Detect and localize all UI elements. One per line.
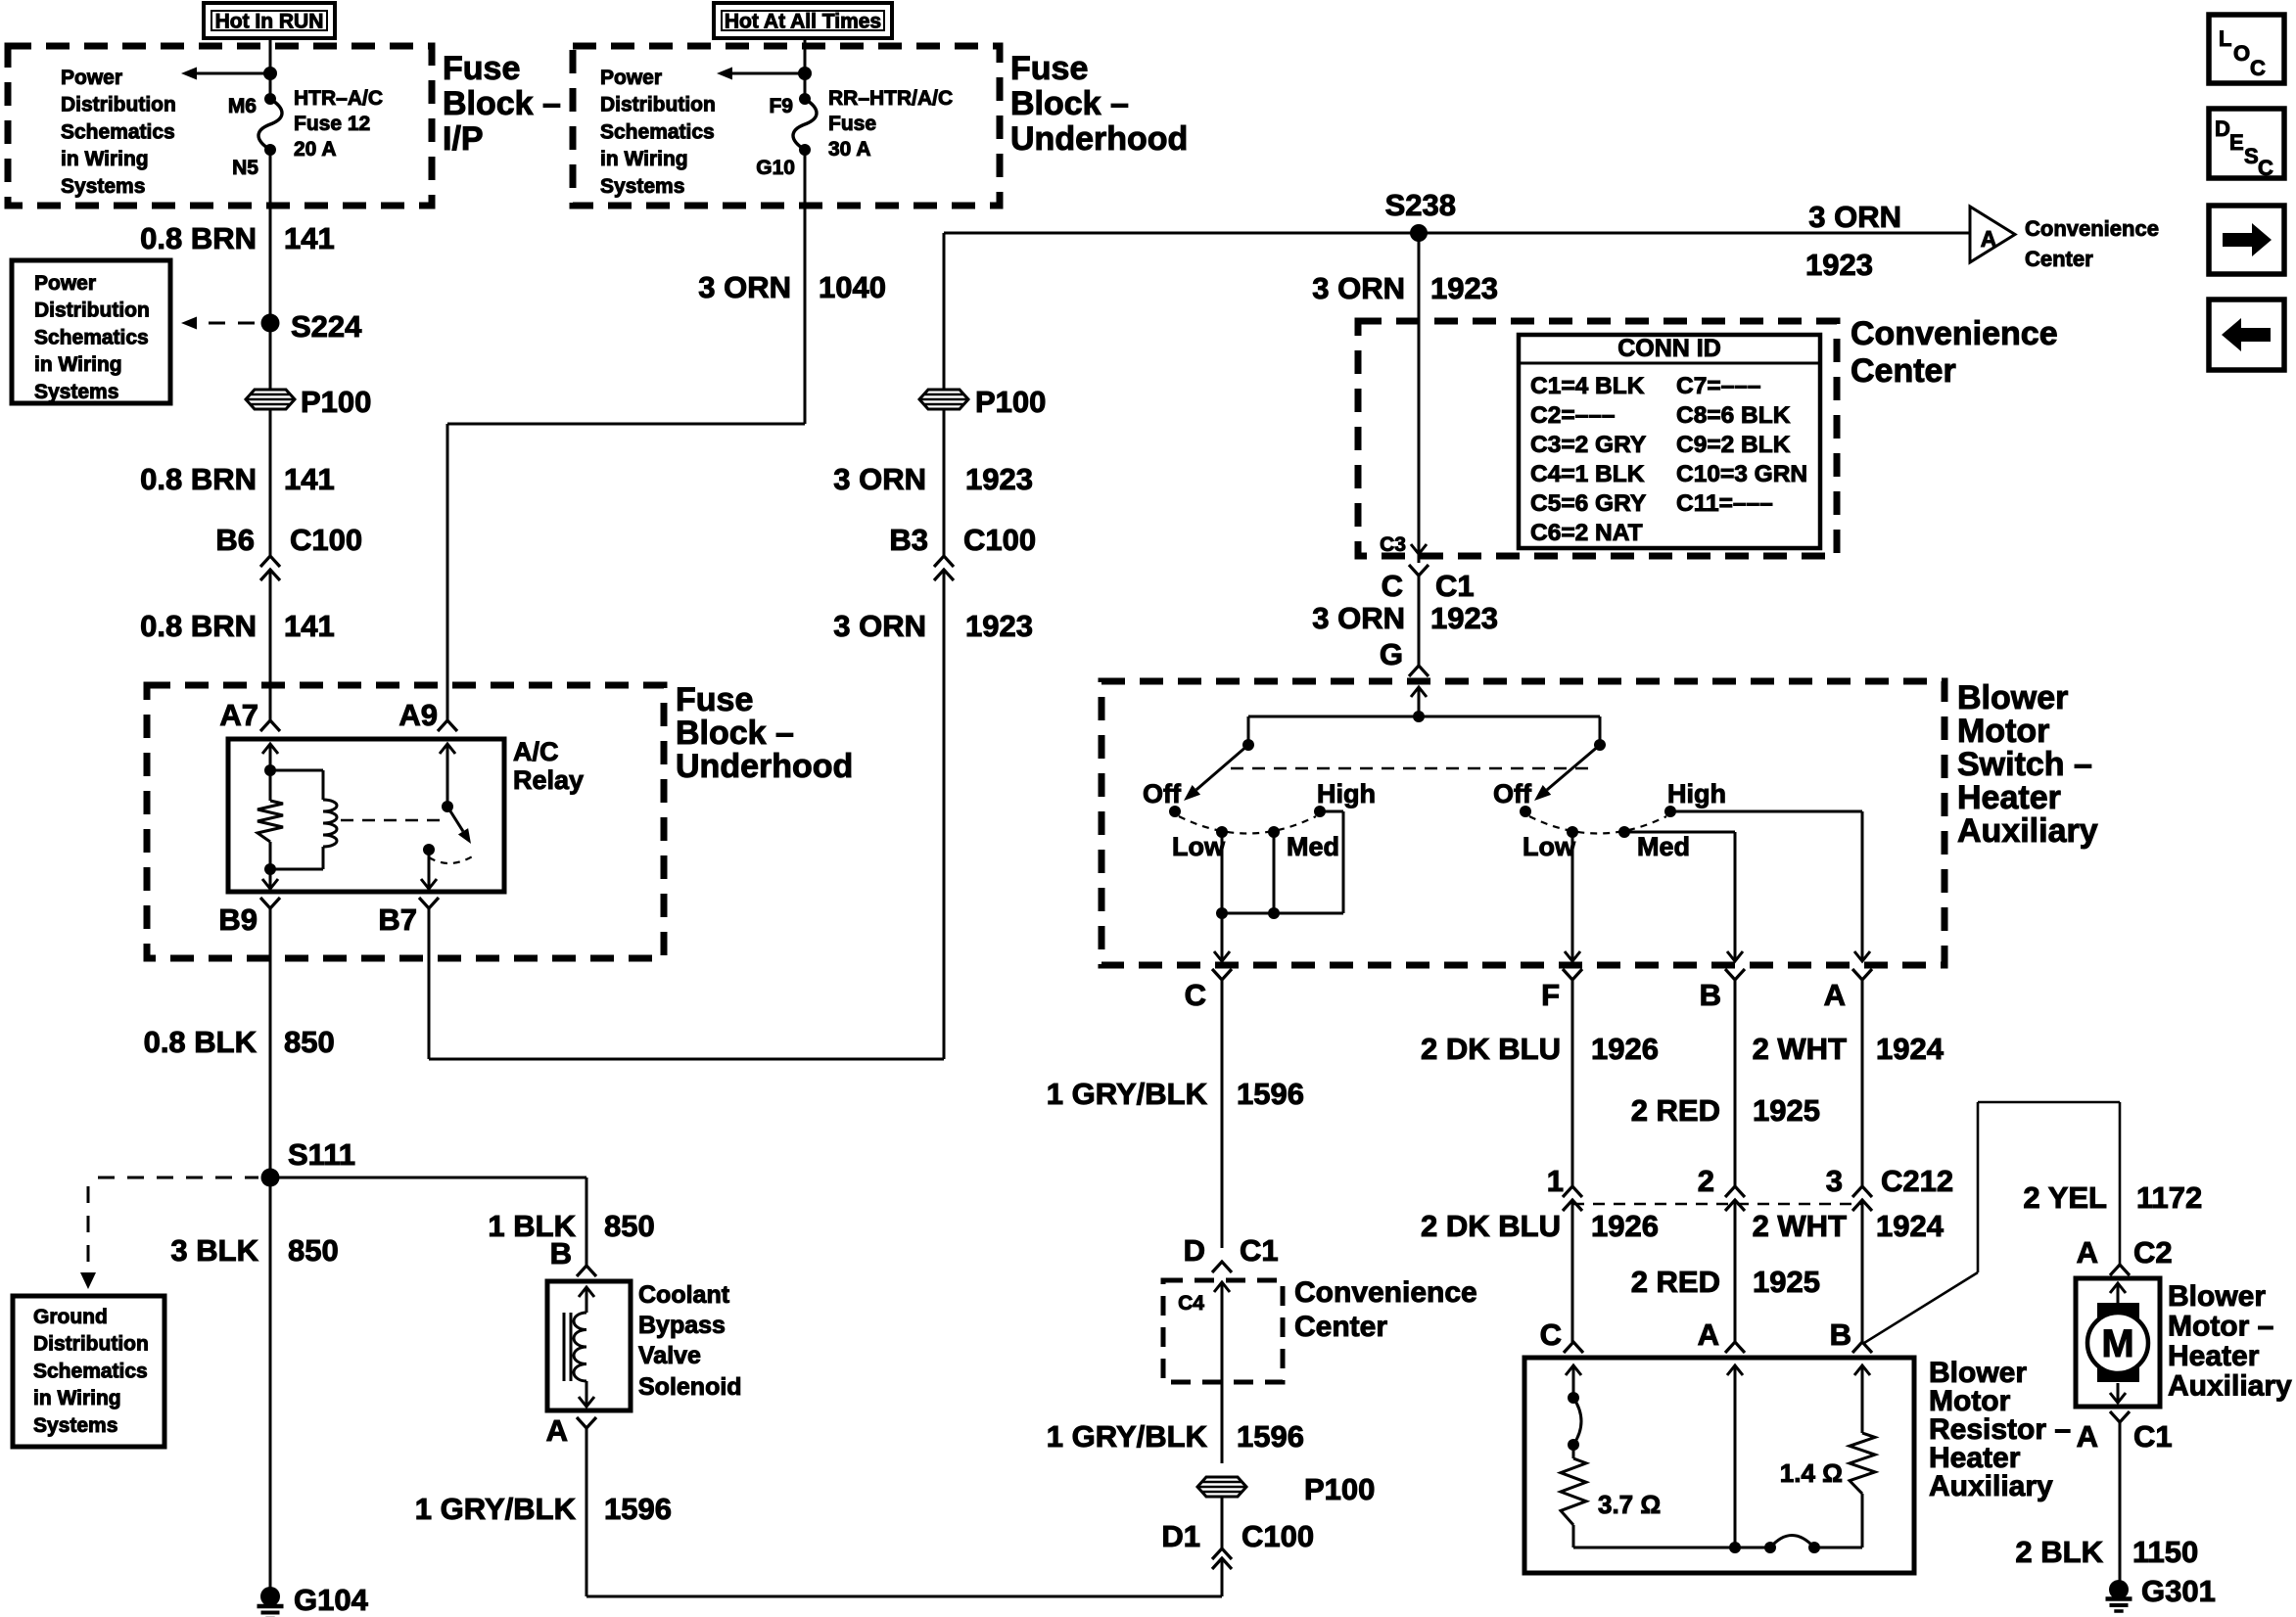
svg-text:P100: P100 <box>301 385 371 419</box>
svg-text:C3: C3 <box>1380 533 1406 556</box>
svg-text:1 GRY/BLK: 1 GRY/BLK <box>415 1492 577 1526</box>
wire 2 DK BLU 1926 (F to C212) <box>1571 980 1574 1186</box>
svg-text:D1: D1 <box>1161 1519 1200 1553</box>
svg-text:C4: C4 <box>1178 1292 1204 1315</box>
wire 0.8 BLK 850 (B9 to S111) <box>269 908 272 1178</box>
splice S238 <box>1410 224 1428 242</box>
pin C of switch <box>1212 969 1232 980</box>
svg-text:Schematics: Schematics <box>34 326 149 348</box>
svg-text:Ground: Ground <box>33 1306 108 1328</box>
svg-text:High: High <box>1667 779 1726 808</box>
svg-text:C5=6 GRY: C5=6 GRY <box>1530 490 1646 517</box>
relay B9 leg <box>269 869 272 889</box>
nav button LOC <box>2209 15 2284 83</box>
svg-text:1926: 1926 <box>1591 1209 1659 1243</box>
wire 2 RED 1925 (C212 to resistor A) <box>1734 1200 1737 1342</box>
svg-text:Power: Power <box>600 67 662 89</box>
svg-text:S111: S111 <box>288 1137 355 1172</box>
note box Power Distribution Schematics in Wiring Systems <box>12 260 170 403</box>
junction to power distribution (arrow left) <box>263 67 277 80</box>
svg-text:Low: Low <box>1523 832 1576 861</box>
svg-text:C212: C212 <box>1881 1164 1953 1198</box>
svg-text:C100: C100 <box>963 523 1036 557</box>
wire 2 WHT 1924 (C212 to resistor B) <box>1861 1200 1864 1342</box>
svg-text:C1: C1 <box>1240 1233 1279 1268</box>
contact High <box>1664 806 1676 817</box>
svg-text:2 YEL: 2 YEL <box>2023 1180 2107 1215</box>
switch feed bus <box>1411 687 1427 697</box>
svg-text:1172: 1172 <box>2136 1180 2202 1215</box>
svg-text:P100: P100 <box>975 385 1046 419</box>
svg-text:1923: 1923 <box>965 609 1033 643</box>
pin B of switch <box>1725 969 1745 980</box>
contact Low <box>1216 826 1228 838</box>
resistor bottom bus with hop <box>1573 1547 1770 1549</box>
nav button DESC <box>2209 109 2284 178</box>
svg-text:G104: G104 <box>294 1583 369 1617</box>
contact dashed arc <box>1529 816 1666 834</box>
contact Low <box>1567 826 1578 838</box>
wire 1 GRY/BLK 1596 (C to C1 D) <box>1221 980 1224 1248</box>
svg-text:3 BLK: 3 BLK <box>170 1233 258 1268</box>
svg-text:L: L <box>2219 26 2231 51</box>
svg-text:I/P: I/P <box>443 120 484 158</box>
svg-text:1040: 1040 <box>819 270 886 304</box>
svg-text:Off: Off <box>1493 779 1532 808</box>
svg-text:Coolant: Coolant <box>638 1281 730 1309</box>
svg-text:2 WHT: 2 WHT <box>1753 1209 1848 1243</box>
svg-text:C4=1 BLK: C4=1 BLK <box>1530 461 1645 487</box>
svg-text:Heater: Heater <box>1957 779 2061 816</box>
switch wiper arm <box>1242 739 1254 751</box>
svg-text:Distribution: Distribution <box>34 300 150 322</box>
connector C1 pin A (motor out) <box>2110 1411 2130 1422</box>
svg-text:CONN ID: CONN ID <box>1617 335 1721 362</box>
svg-text:Heater: Heater <box>2168 1340 2260 1372</box>
svg-text:Schematics: Schematics <box>33 1360 148 1382</box>
svg-text:Systems: Systems <box>33 1414 117 1437</box>
svg-text:B: B <box>1830 1317 1851 1352</box>
svg-text:1596: 1596 <box>1237 1419 1304 1454</box>
wire 3 BLK 850 (S111 to G104) <box>269 1186 272 1588</box>
svg-text:0.8 BRN: 0.8 BRN <box>140 462 257 496</box>
svg-text:1926: 1926 <box>1591 1032 1659 1066</box>
svg-text:C10=3 GRN: C10=3 GRN <box>1676 461 1807 487</box>
svg-text:0.8 BRN: 0.8 BRN <box>140 221 257 255</box>
svg-text:F9: F9 <box>769 95 793 117</box>
wire: Hot In RUN down to fuse 12 <box>269 38 272 99</box>
svg-text:3 ORN: 3 ORN <box>1312 601 1405 635</box>
svg-text:N5: N5 <box>232 157 258 179</box>
blower motor switch dashed box <box>1101 681 1945 965</box>
resistor leg A (direct) <box>1727 1365 1743 1375</box>
svg-text:C11=–––: C11=––– <box>1676 490 1773 517</box>
svg-text:Center: Center <box>1294 1311 1387 1343</box>
svg-text:3 ORN: 3 ORN <box>698 270 791 304</box>
svg-text:C: C <box>1540 1317 1562 1352</box>
svg-text:in Wiring: in Wiring <box>600 148 688 170</box>
motor symbol M <box>2097 1303 2139 1323</box>
svg-text:G: G <box>1380 637 1403 671</box>
svg-text:Underhood: Underhood <box>1010 120 1188 158</box>
svg-text:A: A <box>2077 1235 2098 1270</box>
note box Ground Distribution Schematics <box>13 1296 164 1447</box>
wire: Hot At All Times down to fuse <box>804 38 807 99</box>
contact Off <box>1169 806 1181 817</box>
svg-text:O: O <box>2233 41 2250 66</box>
svg-text:30 A: 30 A <box>828 138 871 161</box>
pass-through grommet P100 (bottom) <box>1197 1477 1246 1497</box>
relay coil-switch dashed link <box>341 819 448 822</box>
contact High <box>1314 806 1326 817</box>
svg-text:1596: 1596 <box>1237 1077 1304 1111</box>
pass-through grommet P100 (right) <box>919 390 968 409</box>
svg-text:B7: B7 <box>378 902 417 937</box>
wire 0.8 BRN 141 (P100 to C100) <box>269 409 272 556</box>
svg-text:C1=4 BLK: C1=4 BLK <box>1530 373 1645 399</box>
CONN ID table <box>1519 335 1820 548</box>
dashed ref arrow to ground distribution <box>98 1177 258 1179</box>
wire 3 ORN 1923 (S238 down to conv center) <box>1418 233 1421 563</box>
off-page connector A to Convenience Center <box>1970 207 2015 262</box>
contact dashed arc <box>1179 816 1316 834</box>
blower motor box <box>2076 1278 2160 1407</box>
nav button next (right arrow) <box>2209 206 2284 274</box>
svg-text:C100: C100 <box>1242 1519 1314 1553</box>
svg-text:Distribution: Distribution <box>600 94 716 116</box>
contact Med <box>1618 826 1630 838</box>
svg-text:141: 141 <box>284 462 335 496</box>
svg-text:A/C: A/C <box>513 737 559 766</box>
svg-text:Motor –: Motor – <box>2168 1311 2273 1343</box>
relay coil <box>270 769 323 772</box>
switch wiper dashed arc <box>429 855 474 863</box>
svg-text:C6=2 NAT: C6=2 NAT <box>1530 520 1643 546</box>
svg-text:Auxiliary: Auxiliary <box>1957 812 2098 850</box>
svg-text:C1: C1 <box>1435 569 1475 603</box>
svg-text:Systems: Systems <box>34 381 118 403</box>
svg-text:Block –: Block – <box>443 85 561 122</box>
svg-text:Fuse 12: Fuse 12 <box>294 113 370 135</box>
svg-text:Relay: Relay <box>513 765 584 795</box>
svg-text:Block –: Block – <box>1010 85 1129 122</box>
wire 0.8 BRN 141 (fuse to S224) <box>269 150 272 314</box>
svg-text:2 RED: 2 RED <box>1631 1093 1720 1128</box>
svg-text:0.8 BRN: 0.8 BRN <box>140 609 257 643</box>
svg-text:E: E <box>2229 130 2244 155</box>
svg-text:A: A <box>2077 1419 2098 1454</box>
svg-text:in Wiring: in Wiring <box>33 1387 121 1409</box>
svg-text:Fuse: Fuse <box>676 681 753 718</box>
svg-text:3 ORN: 3 ORN <box>833 609 926 643</box>
connector C1 pin C <box>1409 565 1429 576</box>
svg-text:F: F <box>1541 978 1560 1012</box>
svg-text:141: 141 <box>284 609 335 643</box>
svg-text:Distribution: Distribution <box>33 1333 149 1356</box>
svg-text:C3=2 GRY: C3=2 GRY <box>1530 432 1646 458</box>
svg-text:C7=–––: C7=––– <box>1676 373 1761 399</box>
svg-text:C2=–––: C2=––– <box>1530 402 1616 429</box>
junction arrow left (underhood) <box>798 67 812 80</box>
wire 2 BLK 1150 (motor to G301) <box>2119 1422 2122 1581</box>
svg-text:Distribution: Distribution <box>61 94 176 116</box>
svg-text:1 GRY/BLK: 1 GRY/BLK <box>1047 1077 1208 1111</box>
wire 3 ORN 1040 (fuse G10 down, left, down to A9) <box>804 150 807 424</box>
fuse block Underhood dashed box (top) <box>573 46 1000 206</box>
wire S111 right branch 1 BLK 850 <box>270 1177 586 1179</box>
svg-text:1: 1 <box>1547 1164 1564 1198</box>
svg-text:HTR–A/C: HTR–A/C <box>294 87 383 110</box>
svg-text:Bypass: Bypass <box>638 1312 726 1339</box>
svg-text:M6: M6 <box>228 95 257 117</box>
svg-text:1.4 Ω: 1.4 Ω <box>1780 1458 1843 1488</box>
A/C relay box <box>228 739 504 892</box>
svg-text:C: C <box>2258 156 2273 180</box>
wire 2 YEL 1172 (resistor B to motor) <box>1864 1272 1978 1343</box>
svg-text:A9: A9 <box>398 698 438 732</box>
svg-text:B3: B3 <box>889 523 928 557</box>
svg-text:2 BLK: 2 BLK <box>2015 1535 2103 1569</box>
blower motor resistor box <box>1524 1358 1914 1573</box>
svg-text:2 WHT: 2 WHT <box>1753 1032 1848 1066</box>
svg-text:A: A <box>1981 226 1997 252</box>
svg-text:Valve: Valve <box>638 1342 701 1369</box>
power feed box Hot At All Times <box>714 3 892 38</box>
svg-text:A7: A7 <box>219 698 258 732</box>
pin F of switch <box>1563 969 1582 980</box>
svg-text:Hot In RUN: Hot In RUN <box>215 11 324 33</box>
splice S111 <box>261 1169 280 1187</box>
wire 2 DK BLU 1926 (C212 to resistor C) <box>1571 1200 1574 1342</box>
svg-text:Med: Med <box>1637 832 1690 861</box>
svg-text:M: M <box>2101 1322 2133 1365</box>
svg-text:A: A <box>1824 978 1846 1012</box>
svg-text:3.7 Ω: 3.7 Ω <box>1598 1490 1661 1519</box>
svg-text:Schematics: Schematics <box>61 120 175 143</box>
svg-text:High: High <box>1317 779 1376 808</box>
solenoid coil <box>579 1287 594 1297</box>
svg-text:850: 850 <box>288 1233 339 1268</box>
svg-text:1924: 1924 <box>1876 1032 1945 1066</box>
svg-text:B: B <box>1700 978 1721 1012</box>
pass-through grommet P100 (left) <box>246 390 295 409</box>
svg-text:Blower: Blower <box>1957 679 2068 716</box>
svg-text:Hot At All Times: Hot At All Times <box>725 11 881 33</box>
splice S224 with dashed ref arrow <box>209 322 262 325</box>
contact Med <box>1268 826 1280 838</box>
svg-text:B6: B6 <box>215 523 255 557</box>
svg-text:850: 850 <box>604 1209 655 1243</box>
contact Off <box>1520 806 1531 817</box>
svg-text:Auxiliary: Auxiliary <box>2168 1370 2292 1403</box>
svg-text:Convenience: Convenience <box>1294 1276 1477 1309</box>
svg-text:Systems: Systems <box>600 175 684 198</box>
switch2 wiring to F, B, A <box>1571 832 1574 961</box>
relay switch (A9-B7) <box>440 744 455 754</box>
svg-text:B9: B9 <box>218 902 258 937</box>
svg-text:Solenoid: Solenoid <box>638 1373 742 1401</box>
power feed box Hot In RUN <box>204 3 335 38</box>
switch wiper arm <box>1594 739 1606 751</box>
wire 0.8 BRN 141 (C100 to A/C relay A7) <box>269 570 272 720</box>
svg-text:1924: 1924 <box>1876 1209 1945 1243</box>
svg-text:Fuse: Fuse <box>1010 50 1088 87</box>
svg-text:3: 3 <box>1826 1164 1843 1198</box>
svg-text:D: D <box>1184 1233 1205 1268</box>
svg-text:S224: S224 <box>291 309 362 344</box>
svg-text:2: 2 <box>1698 1164 1714 1198</box>
svg-text:3 ORN: 3 ORN <box>1312 271 1405 305</box>
svg-text:Auxiliary: Auxiliary <box>1929 1470 2053 1502</box>
svg-text:RR–HTR/A/C: RR–HTR/A/C <box>828 87 953 110</box>
svg-text:Motor: Motor <box>1957 713 2049 750</box>
svg-text:1923: 1923 <box>1430 271 1498 305</box>
convenience center C4 dashed box <box>1163 1280 1283 1382</box>
wire S224 to P100 <box>269 332 272 390</box>
svg-text:1150: 1150 <box>2132 1535 2198 1569</box>
svg-text:850: 850 <box>284 1025 335 1059</box>
coolant bypass valve solenoid box <box>547 1281 631 1410</box>
svg-text:0.8 BLK: 0.8 BLK <box>144 1025 258 1059</box>
svg-text:C9=2 BLK: C9=2 BLK <box>1676 432 1791 458</box>
fuse block underhood dashed box (relay) <box>147 685 664 958</box>
wire B7 down right up to C100 (3 ORN path) <box>428 908 431 1059</box>
resistor leg B 1.4 ohm <box>1854 1365 1870 1375</box>
relay resistor <box>269 770 272 801</box>
svg-text:Schematics: Schematics <box>600 120 715 143</box>
svg-text:Systems: Systems <box>61 175 145 198</box>
svg-text:Med: Med <box>1287 832 1339 861</box>
wire 1 GRY/BLK 1596 (solenoid A to junction) <box>586 1428 588 1596</box>
wire 3 ORN 1923 (P100 right column) <box>943 233 946 390</box>
svg-text:Block –: Block – <box>676 715 794 752</box>
svg-text:1925: 1925 <box>1753 1265 1820 1299</box>
fuse block I/P dashed box <box>8 46 432 206</box>
svg-text:Switch –: Switch – <box>1957 746 2092 783</box>
svg-text:Fuse: Fuse <box>828 113 876 135</box>
switch mechanical dashed link <box>1231 767 1591 770</box>
svg-text:A: A <box>546 1413 568 1448</box>
svg-text:B: B <box>550 1236 572 1270</box>
svg-text:C: C <box>1382 569 1403 603</box>
svg-text:C: C <box>1185 978 1206 1012</box>
relay coil branch (A7-B9) <box>262 744 278 754</box>
wire through C4 <box>1214 1282 1230 1292</box>
svg-text:Off: Off <box>1143 779 1182 808</box>
ground G104 <box>260 1587 280 1606</box>
svg-text:1925: 1925 <box>1753 1093 1820 1128</box>
svg-text:G10: G10 <box>756 157 795 179</box>
svg-text:Convenience: Convenience <box>2025 216 2159 241</box>
S238 feed line to convenience center <box>944 232 1970 235</box>
svg-text:C2: C2 <box>2133 1235 2173 1270</box>
svg-text:20 A: 20 A <box>294 138 337 161</box>
svg-text:Power: Power <box>34 272 96 295</box>
svg-text:Underhood: Underhood <box>676 748 853 785</box>
svg-text:S: S <box>2244 144 2259 168</box>
svg-text:S238: S238 <box>1385 188 1456 222</box>
convenience center dashed box <box>1358 321 1837 556</box>
pin A of switch <box>1852 969 1872 980</box>
wire 3 ORN 1923 (C1 to switch G) <box>1418 576 1421 666</box>
svg-text:A: A <box>1698 1317 1719 1352</box>
svg-text:Center: Center <box>2025 247 2093 271</box>
svg-text:Low: Low <box>1172 832 1226 861</box>
svg-text:G301: G301 <box>2141 1574 2216 1608</box>
pin A of coolant solenoid <box>577 1417 596 1428</box>
svg-text:P100: P100 <box>1304 1472 1375 1506</box>
wire 2 WHT 1924 (A to C212) <box>1861 980 1864 1186</box>
svg-text:Power: Power <box>61 67 122 89</box>
svg-text:1596: 1596 <box>604 1492 672 1526</box>
svg-text:C100: C100 <box>290 523 362 557</box>
svg-text:2 DK BLU: 2 DK BLU <box>1421 1209 1561 1243</box>
resistor leg C with thermal limiter <box>1566 1365 1581 1375</box>
svg-text:Center: Center <box>1851 352 1956 390</box>
svg-text:2 DK BLU: 2 DK BLU <box>1421 1032 1561 1066</box>
nav button back (left arrow) <box>2209 300 2284 370</box>
svg-text:C1: C1 <box>2133 1419 2173 1454</box>
svg-text:1923: 1923 <box>1430 601 1498 635</box>
ground G301 <box>2109 1580 2129 1599</box>
svg-text:2 RED: 2 RED <box>1631 1265 1720 1299</box>
svg-text:1923: 1923 <box>965 462 1033 496</box>
svg-text:141: 141 <box>284 221 335 255</box>
svg-text:1 GRY/BLK: 1 GRY/BLK <box>1047 1419 1208 1454</box>
svg-text:Convenience: Convenience <box>1851 315 2058 352</box>
svg-text:Blower: Blower <box>2168 1280 2266 1313</box>
switch1 low/med/high wiring <box>1221 832 1224 913</box>
svg-text:3 ORN: 3 ORN <box>833 462 926 496</box>
svg-text:Fuse: Fuse <box>443 50 520 87</box>
svg-text:1923: 1923 <box>1805 248 1873 282</box>
svg-text:in Wiring: in Wiring <box>34 353 122 376</box>
svg-text:in Wiring: in Wiring <box>61 148 149 170</box>
svg-text:C: C <box>2250 56 2266 80</box>
wire 2 RED 1925 (B to C212) <box>1734 980 1737 1186</box>
svg-text:D: D <box>2215 116 2230 141</box>
svg-text:C8=6 BLK: C8=6 BLK <box>1676 402 1791 429</box>
svg-text:3 ORN: 3 ORN <box>1808 200 1901 234</box>
